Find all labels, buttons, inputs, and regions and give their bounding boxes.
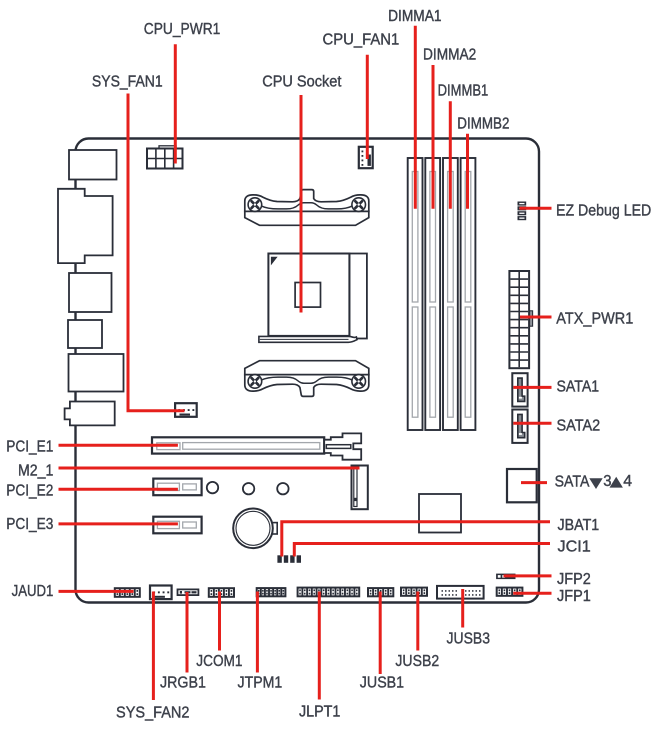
svg-text:DIMMA2: DIMMA2 xyxy=(423,47,476,64)
svg-text:SATA1: SATA1 xyxy=(557,379,600,396)
svg-text:CPU Socket: CPU Socket xyxy=(262,73,342,90)
svg-text:SATA: SATA xyxy=(555,473,590,490)
svg-text:CPU_FAN1: CPU_FAN1 xyxy=(323,32,400,49)
svg-text:JFP1: JFP1 xyxy=(557,588,591,605)
svg-text:ATX_PWR1: ATX_PWR1 xyxy=(556,310,633,327)
svg-text:JLPT1: JLPT1 xyxy=(299,704,341,721)
svg-text:SATA2: SATA2 xyxy=(557,417,601,434)
svg-text:JRGB1: JRGB1 xyxy=(160,674,206,691)
svg-text:JUSB3: JUSB3 xyxy=(447,631,491,648)
svg-text:JUSB1: JUSB1 xyxy=(360,674,404,691)
svg-text:PCI_E1: PCI_E1 xyxy=(6,438,53,455)
svg-text:3: 3 xyxy=(603,473,611,490)
svg-text:JCOM1: JCOM1 xyxy=(196,653,242,670)
svg-text:CPU_PWR1: CPU_PWR1 xyxy=(144,21,221,38)
svg-text:JAUD1: JAUD1 xyxy=(12,583,54,600)
svg-text:JFP2: JFP2 xyxy=(557,571,591,588)
svg-text:M2_1: M2_1 xyxy=(18,463,54,480)
svg-text:DIMMA1: DIMMA1 xyxy=(388,8,442,25)
svg-text:JTPM1: JTPM1 xyxy=(238,674,283,691)
svg-text:PCI_E2: PCI_E2 xyxy=(6,483,53,500)
svg-text:JCI1: JCI1 xyxy=(558,539,592,556)
svg-text:SYS_FAN1: SYS_FAN1 xyxy=(92,73,163,90)
svg-text:SYS_FAN2: SYS_FAN2 xyxy=(116,705,190,722)
svg-text:DIMMB1: DIMMB1 xyxy=(438,82,489,99)
svg-text:DIMMB2: DIMMB2 xyxy=(457,115,509,132)
svg-text:4: 4 xyxy=(623,473,632,490)
svg-text:EZ Debug LED: EZ Debug LED xyxy=(556,202,651,219)
svg-text:PCI_E3: PCI_E3 xyxy=(6,516,53,533)
svg-text:JBAT1: JBAT1 xyxy=(558,517,600,534)
svg-text:JUSB2: JUSB2 xyxy=(395,653,439,670)
